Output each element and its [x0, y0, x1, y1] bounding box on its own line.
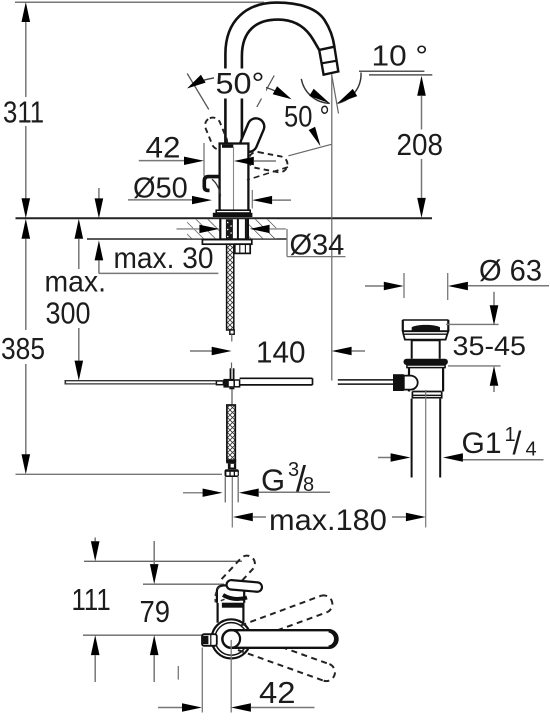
threaded mounting rod [227, 244, 235, 368]
side view dashed spout swivel up [241, 595, 333, 641]
braided supply hose [225, 405, 239, 528]
svg-text:8: 8 [303, 474, 314, 496]
side view aerator stub [202, 634, 217, 646]
dimension G3/8 [183, 458, 330, 499]
dimension 140 [190, 336, 365, 370]
dimension 385 [1, 219, 45, 474]
side view body cap [215, 585, 244, 603]
mounting washer below deck [202, 240, 251, 245]
dimension max.30 [95, 188, 219, 275]
svg-text:Ø50: Ø50 [133, 173, 188, 205]
mounting nut [235, 244, 250, 253]
countertop deck section [16, 218, 433, 239]
spout axis vertical line [331, 75, 333, 381]
svg-text:max.180: max.180 [269, 504, 387, 537]
svg-text:max.: max. [45, 266, 106, 299]
dimension diameter 63 [365, 254, 549, 300]
pop-up horizontal bar right [240, 378, 313, 385]
side view dashed spout swivel down [238, 633, 335, 681]
svg-text:311: 311 [3, 95, 44, 130]
lever swing 50deg annotation [187, 74, 292, 110]
10 degree reference lines [359, 41, 432, 75]
dimension G1 1/4 [378, 424, 544, 462]
dimension diameter 34 [177, 225, 346, 262]
svg-text:G1: G1 [462, 427, 502, 460]
aerator at spout tip [319, 47, 338, 75]
side view body column [218, 603, 244, 623]
svg-text:111: 111 [72, 583, 111, 618]
svg-text:4: 4 [526, 439, 537, 461]
gooseneck spout inner edge [242, 20, 319, 146]
svg-text:50°: 50° [216, 67, 265, 101]
svg-text:max. 30: max. 30 [114, 242, 214, 275]
dimension max.300 [45, 219, 106, 381]
faucet body [220, 144, 249, 213]
dimension 208 [397, 76, 443, 218]
side view spout bar [222, 630, 337, 648]
arc 50deg swivel with arrowhead [284, 79, 330, 146]
gooseneck spout outer edge [225, 3, 334, 146]
svg-text:Ø 63: Ø 63 [479, 254, 542, 288]
spout axis tilted 10deg line [332, 74, 339, 113]
side view lever closed (ellipse) [223, 580, 262, 599]
svg-text:35-45: 35-45 [453, 331, 527, 361]
svg-text:50 °: 50 ° [284, 100, 330, 133]
svg-text:Ø34: Ø34 [290, 230, 345, 262]
dimension 311 [3, 2, 44, 218]
svg-text:140: 140 [256, 336, 305, 370]
reference line hose end (385) [16, 473, 223, 475]
svg-text:42: 42 [146, 130, 181, 164]
spout hook side profile [204, 177, 220, 197]
pop-up rod left [65, 380, 216, 385]
dimension 35-45 [446, 292, 526, 392]
svg-text:/: / [513, 425, 522, 461]
dimension 42 bottom [158, 640, 315, 713]
side view dashed spout up position [222, 556, 255, 590]
label 50 deg lever swing [214, 67, 266, 101]
shank through deck [220, 219, 248, 240]
pop-up rod tee fitting [216, 368, 239, 405]
reference line top (311 max height) [15, 1, 264, 3]
side view reference line lever axis [83, 634, 202, 636]
side view base circles [212, 619, 251, 658]
side view reference line lever top [143, 583, 224, 585]
lever dashed position up-left [203, 115, 230, 151]
drain pull rod [338, 380, 394, 384]
lever dashed position right-down [247, 151, 289, 180]
lever solid up-right [238, 116, 267, 155]
svg-text:79: 79 [140, 596, 171, 630]
svg-text:300: 300 [46, 297, 91, 331]
side view cartridge ring [222, 603, 244, 608]
faucet base flange [213, 210, 253, 217]
arc 10deg with arrowhead [338, 73, 362, 104]
dimension diameter 50 [128, 173, 291, 209]
dimension 79 [140, 541, 171, 682]
svg-text:42: 42 [259, 675, 296, 710]
svg-text:10 °: 10 ° [372, 41, 429, 73]
svg-text:385: 385 [1, 332, 45, 366]
dimension 111 [72, 538, 111, 683]
dimension 42 top [139, 130, 332, 176]
svg-text:208: 208 [397, 128, 443, 163]
dimension max.180 [233, 504, 426, 537]
side view reference line top [84, 560, 242, 562]
drain pop-up waste assembly [393, 320, 448, 528]
svg-text:G: G [261, 463, 285, 498]
